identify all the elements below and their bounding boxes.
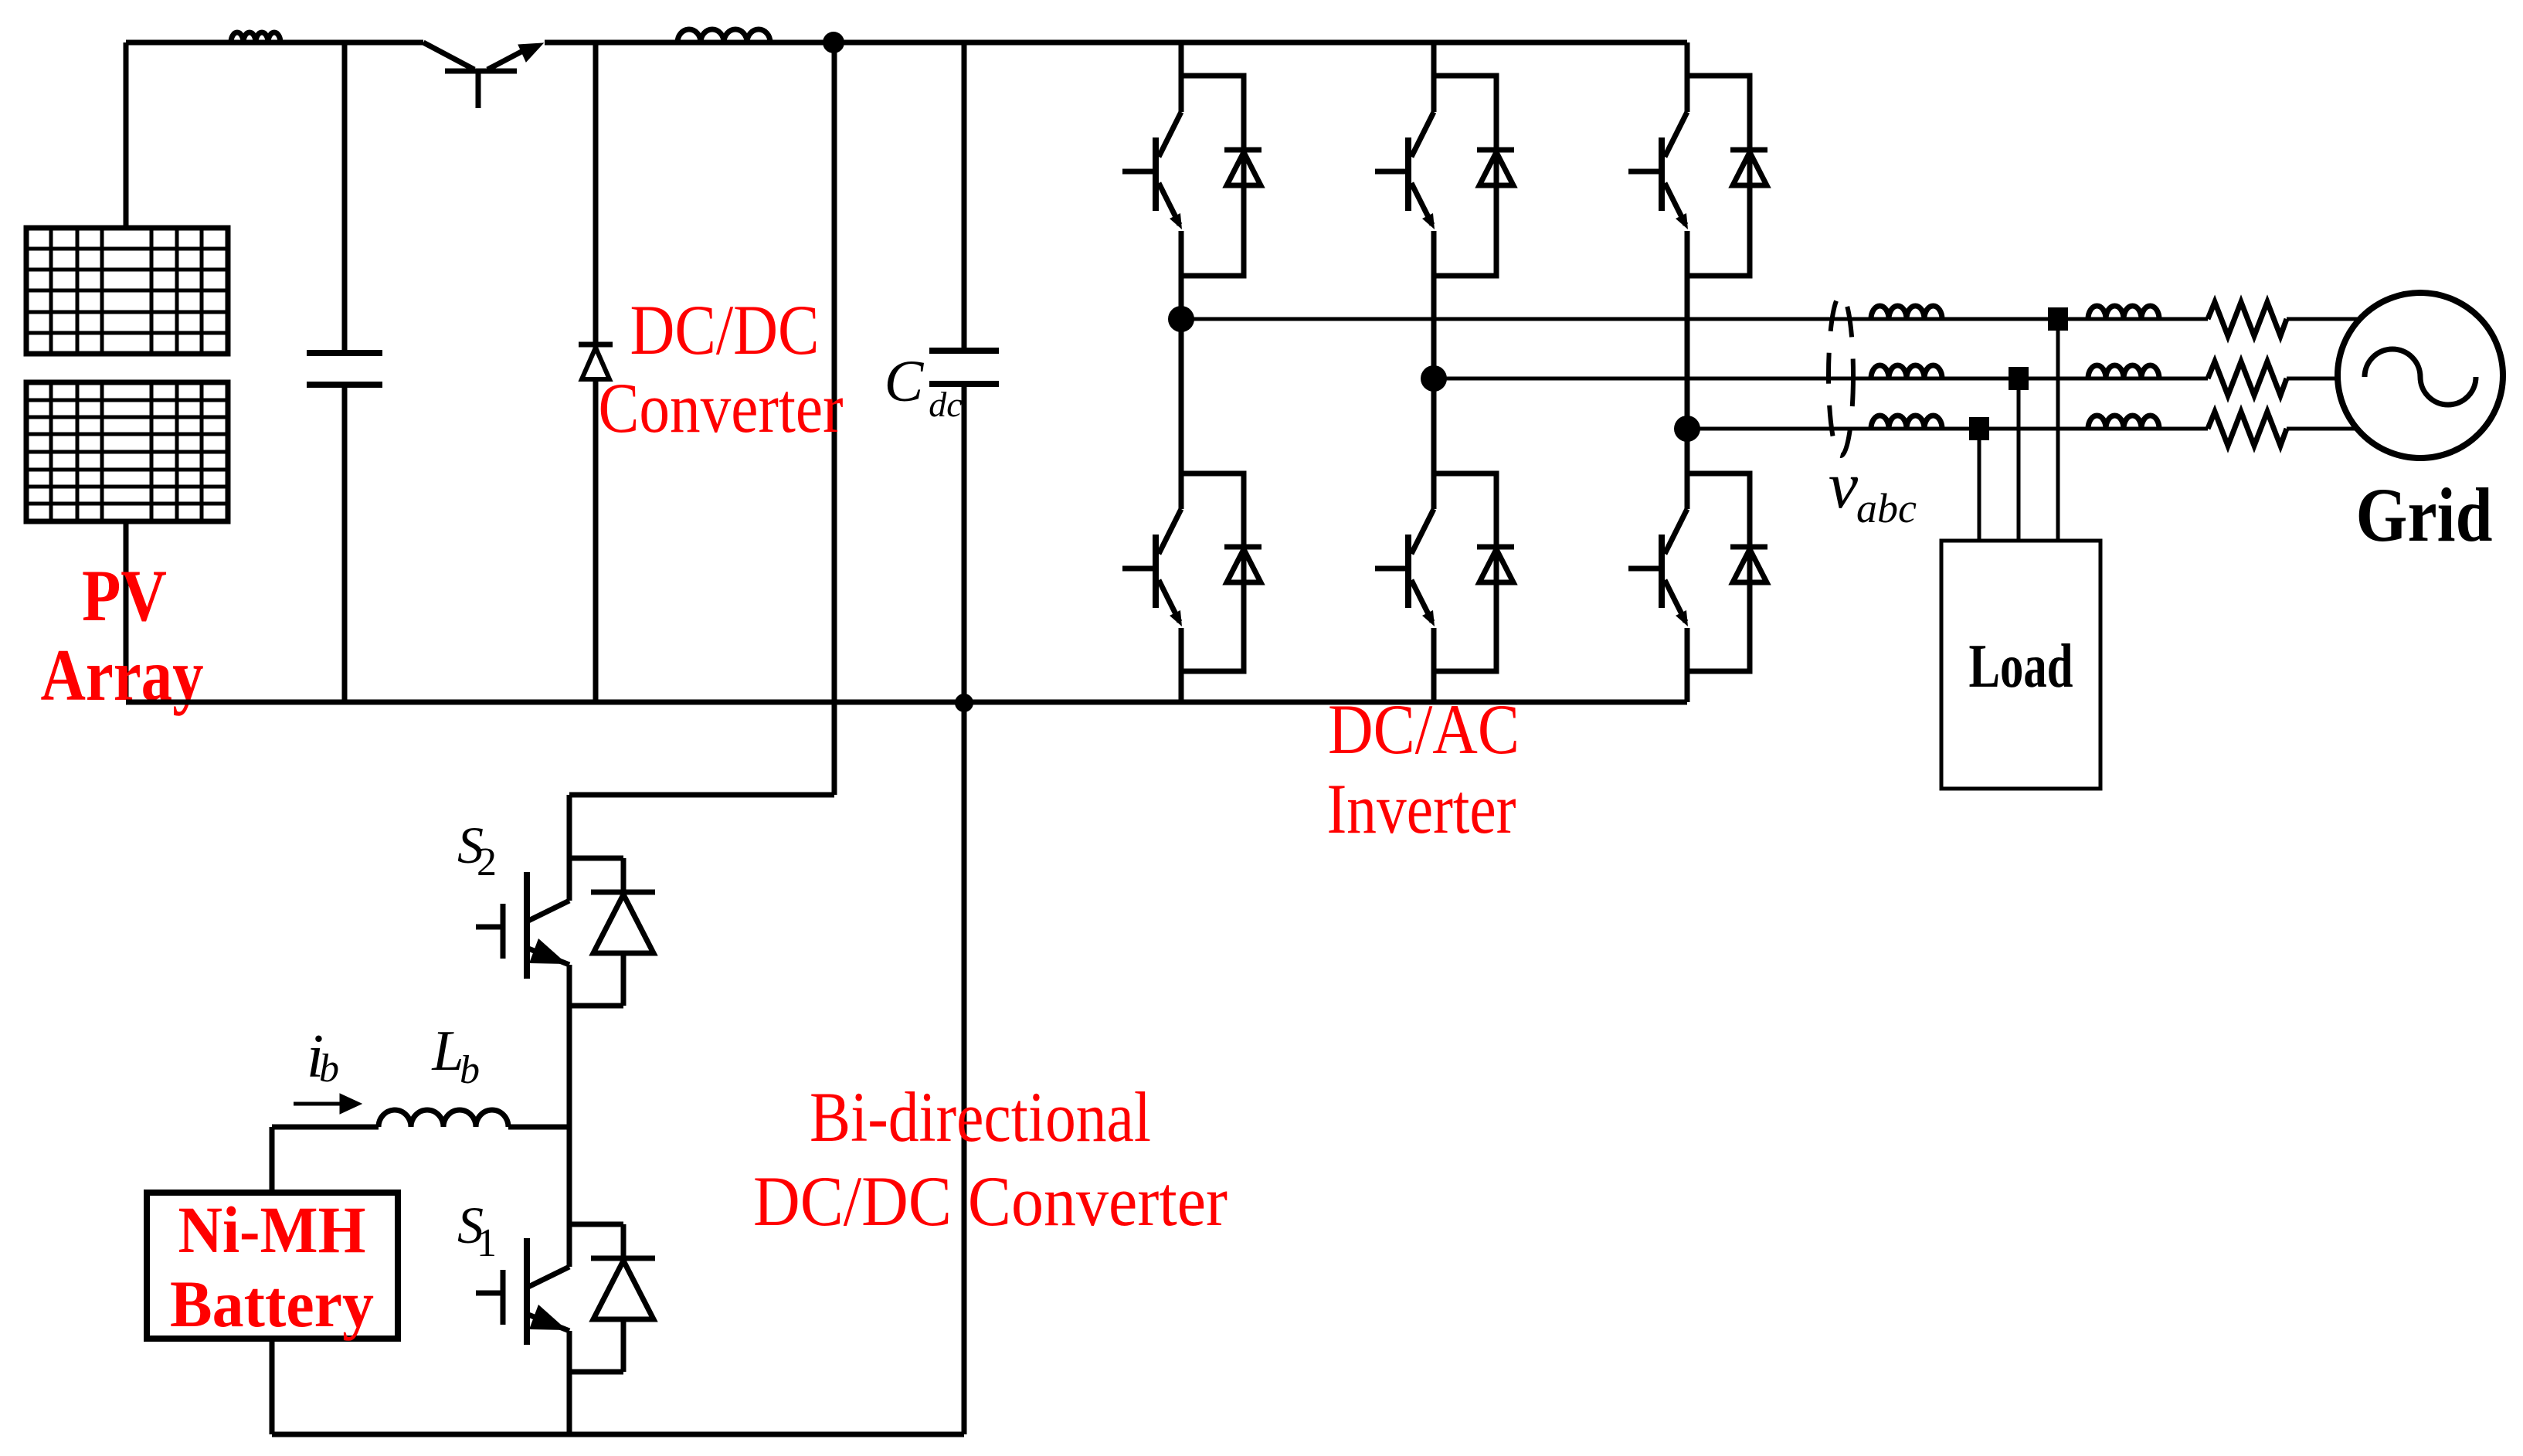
measurement ellipse (v_abc, dashed): [1829, 295, 1853, 456]
svg-text:b: b: [460, 1048, 480, 1092]
node phase output A: [1168, 306, 1194, 332]
node phase output C: [1674, 416, 1700, 442]
wire battery converter top link: [569, 792, 834, 798]
PV panel module 2 (grid symbol): [26, 382, 228, 521]
svg-text:Inverter: Inverter: [1327, 769, 1516, 848]
svg-text:DC/DC Converter: DC/DC Converter: [753, 1162, 1228, 1240]
diode A-upper (anti-parallel): [1224, 150, 1261, 185]
sine wave inside grid source: [2365, 349, 2476, 405]
wire battery positive: [270, 1127, 275, 1193]
svg-text:Load: Load: [1969, 633, 2073, 701]
svg-text:dc: dc: [929, 385, 962, 424]
wire phase c to grid: [2287, 427, 2357, 431]
svg-text:PV: PV: [82, 555, 167, 636]
node load tap b (square junction): [2009, 367, 2029, 390]
inductor Lga (grid side): [2088, 306, 2159, 319]
wire Lb to S-bus: [508, 1125, 569, 1130]
IGBT switch S2: [476, 858, 623, 1006]
capacitor C1 (PV input): [342, 42, 348, 353]
wire battery bottom rail: [272, 1432, 964, 1437]
wire load tap b drop: [2017, 390, 2021, 541]
capacitor Cdc (DC link): [962, 42, 967, 351]
diode C-lower (anti-parallel): [1730, 547, 1767, 582]
AC source: Grid circle with sine: [2338, 293, 2503, 458]
wire S2 bus: [567, 795, 572, 1434]
inductor Lfc (filter): [1871, 416, 1942, 429]
inductor L1 (PV input filter) on top rail: [231, 32, 280, 42]
svg-text:Grid: Grid: [2356, 472, 2493, 558]
inverter leg A: bus: [1181, 42, 1244, 702]
wire phase c line: [1687, 427, 2208, 431]
svg-text:C: C: [885, 349, 925, 414]
svg-text:DC/AC: DC/AC: [1328, 690, 1520, 769]
inverter leg B: bus: [1434, 42, 1496, 702]
IGBT B-upper: [1375, 112, 1434, 225]
svg-text:2: 2: [477, 840, 497, 884]
IGBT C-lower: [1628, 509, 1687, 622]
diode of S2 (anti-parallel): [591, 892, 655, 953]
wire PV positive lead: [124, 42, 129, 228]
transistor Q1 (boost switch): [423, 42, 474, 70]
wire load tap c drop: [1978, 440, 1981, 541]
wire DC/DC converter output bus (down to battery converter): [832, 42, 837, 795]
resistor Ra (grid impedance): [2208, 302, 2287, 336]
inductor Lgb (grid side): [2088, 365, 2159, 378]
diode B-upper (anti-parallel): [1477, 150, 1514, 185]
IGBT C-upper: [1628, 112, 1687, 225]
wire phase a line: [1181, 317, 2208, 321]
diode C-upper (anti-parallel): [1730, 150, 1767, 185]
diode of S1 (anti-parallel): [591, 1258, 655, 1319]
resistor Rc (grid impedance): [2208, 412, 2287, 446]
svg-text:v: v: [1829, 448, 1859, 522]
inductor L2 (boost output) on top rail: [677, 29, 770, 42]
node phase output B: [1421, 365, 1447, 392]
wire PV negative lead: [124, 521, 129, 700]
wire load tap a drop: [2056, 331, 2060, 541]
resistor Rb (grid impedance): [2208, 361, 2287, 395]
IGBT switch S1: [476, 1224, 623, 1372]
inductor Lfa (filter): [1871, 306, 1942, 319]
svg-text:b: b: [319, 1047, 339, 1091]
node load tap a (square junction): [2048, 307, 2068, 331]
wire phase b to grid: [2287, 377, 2338, 381]
svg-text:Ni-MH: Ni-MH: [178, 1193, 366, 1267]
inductor Lfb (filter): [1871, 365, 1942, 378]
wire phase b line: [1434, 377, 2208, 381]
inductor Lb (battery): [379, 1110, 508, 1127]
battery box Ni-MH: [147, 1193, 398, 1339]
svg-text:1: 1: [477, 1221, 497, 1265]
inductor Lgc (grid side): [2088, 416, 2159, 429]
svg-text:Bi-directional: Bi-directional: [810, 1078, 1151, 1156]
svg-text:Battery: Battery: [170, 1267, 374, 1341]
node load tap c (square junction): [1969, 417, 1989, 440]
IGBT A-lower: [1122, 509, 1181, 622]
node boost-output / DC-link junction: [823, 32, 844, 53]
PV panel module 1 (grid symbol): [26, 228, 228, 354]
wire phase a to grid: [2287, 317, 2360, 321]
load box: [1941, 541, 2100, 789]
svg-text:Converter: Converter: [599, 368, 844, 447]
svg-text:abc: abc: [1856, 485, 1917, 531]
IGBT B-lower: [1375, 509, 1434, 622]
svg-text:DC/DC: DC/DC: [630, 290, 820, 369]
IGBT A-upper: [1122, 112, 1181, 225]
wire battery to Lb: [272, 1125, 379, 1130]
diode B-lower (anti-parallel): [1477, 547, 1514, 582]
wire top rail left segment (PV+ to boost transistor): [126, 40, 423, 46]
wire top rail right segment (boost to inverter legs): [545, 40, 1687, 46]
arrow i_b current direction: [294, 1102, 341, 1106]
inverter leg C: bus: [1687, 42, 1750, 702]
node Cdc / battery-converter junction on bottom rail: [955, 694, 973, 712]
diode D1 (boost): [593, 42, 599, 702]
diode A-lower (anti-parallel): [1224, 547, 1261, 582]
wire bottom rail (DC negative bus): [126, 700, 1687, 705]
wire battery negative: [270, 1339, 275, 1434]
